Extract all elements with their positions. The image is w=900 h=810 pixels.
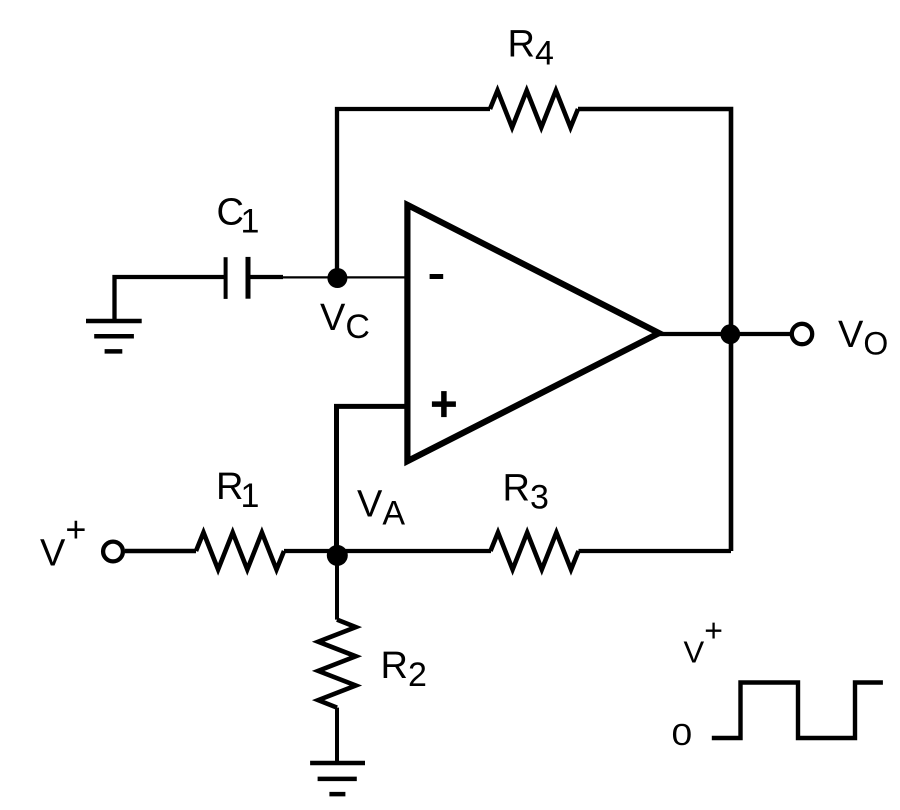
svg-text:0: 0: [672, 718, 693, 752]
